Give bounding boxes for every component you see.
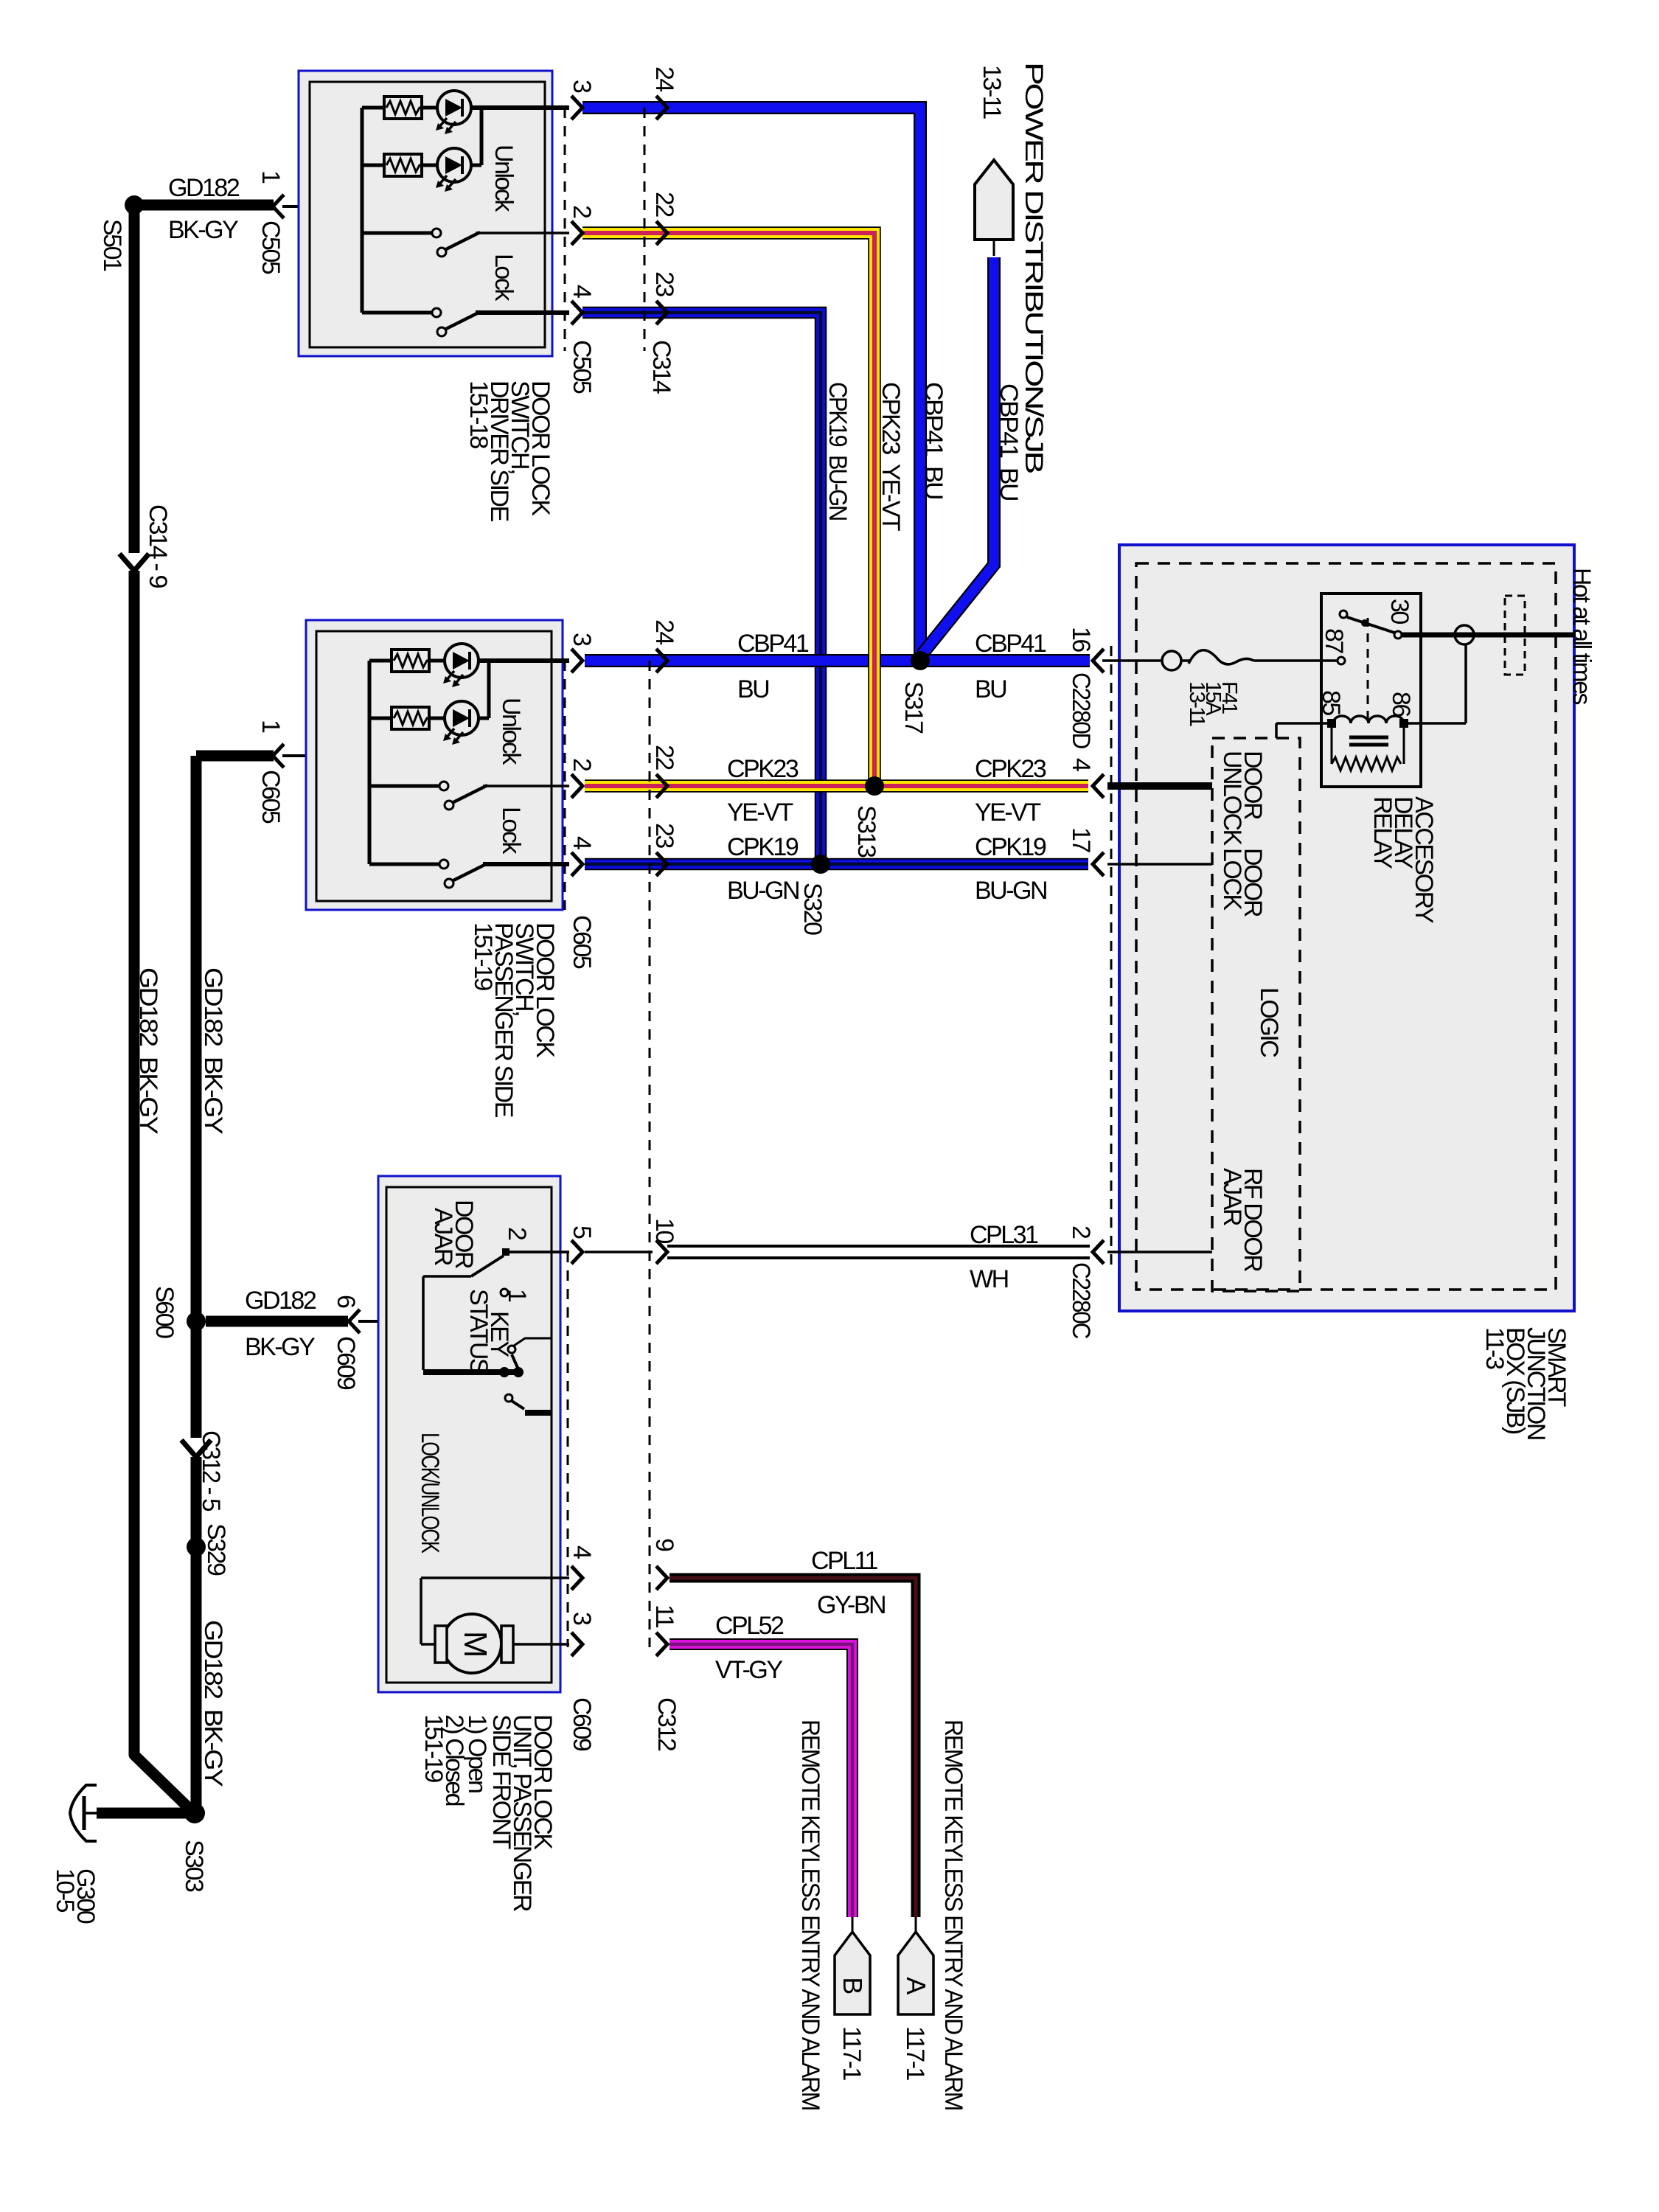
svg-text:POWER DISTRIBUTION/SJB: POWER DISTRIBUTION/SJB — [1020, 62, 1048, 473]
svg-text:30: 30 — [1385, 599, 1413, 624]
svg-text:13-11: 13-11 — [1185, 681, 1208, 726]
svg-text:1: 1 — [257, 170, 285, 184]
svg-text:151-19: 151-19 — [420, 1714, 448, 1782]
svg-text:B: B — [838, 1977, 868, 1994]
svg-text:C314: C314 — [647, 340, 675, 394]
svg-text:BU-GN: BU-GN — [975, 877, 1046, 905]
svg-text:A: A — [901, 1977, 931, 1994]
svg-text:GD182 BK-GY: GD182 BK-GY — [134, 967, 162, 1134]
svg-text:17: 17 — [1067, 827, 1095, 852]
svg-text:UNLOCK: UNLOCK — [1218, 751, 1246, 846]
svg-text:2: 2 — [568, 205, 596, 218]
svg-text:C312 - 5: C312 - 5 — [197, 1430, 225, 1512]
svg-text:C2280C: C2280C — [1067, 1262, 1095, 1339]
svg-text:117-1: 117-1 — [838, 2026, 866, 2081]
svg-text:Lock: Lock — [497, 807, 525, 855]
svg-text:16: 16 — [1067, 627, 1095, 652]
svg-text:3: 3 — [568, 633, 596, 646]
svg-text:LOCK: LOCK — [1218, 848, 1246, 911]
svg-text:4: 4 — [1067, 758, 1095, 771]
svg-text:AJAR: AJAR — [429, 1208, 457, 1265]
svg-text:GY-BN: GY-BN — [817, 1591, 885, 1619]
svg-text:6: 6 — [332, 1295, 360, 1308]
svg-text:LOCK/UNLOCK: LOCK/UNLOCK — [416, 1433, 444, 1554]
svg-text:CPK23 YE-VT: CPK23 YE-VT — [877, 382, 905, 531]
svg-text:3: 3 — [568, 80, 596, 93]
svg-text:CPL52: CPL52 — [715, 1612, 784, 1640]
svg-text:AJAR: AJAR — [1218, 1168, 1246, 1225]
svg-text:3: 3 — [568, 1612, 596, 1625]
svg-text:CBP41 BU: CBP41 BU — [919, 382, 947, 498]
svg-text:10-5: 10-5 — [51, 1868, 79, 1913]
svg-text:BK-GY: BK-GY — [245, 1333, 315, 1361]
svg-text:Lock: Lock — [490, 254, 518, 302]
svg-text:CPK19: CPK19 — [975, 833, 1046, 861]
svg-text:1: 1 — [257, 720, 285, 733]
svg-text:4: 4 — [568, 1545, 596, 1559]
svg-text:S303: S303 — [180, 1840, 208, 1892]
svg-text:4: 4 — [568, 285, 596, 298]
svg-text:CPK23: CPK23 — [975, 755, 1046, 783]
svg-text:CBP41: CBP41 — [737, 630, 809, 658]
svg-text:9: 9 — [650, 1538, 678, 1551]
svg-text:S329: S329 — [202, 1523, 230, 1576]
svg-text:23: 23 — [650, 271, 678, 296]
svg-text:S313: S313 — [852, 805, 880, 858]
svg-text:BU-GN: BU-GN — [727, 877, 799, 905]
svg-text:CPK19: CPK19 — [727, 833, 799, 861]
svg-text:CBP41 BU: CBP41 BU — [995, 383, 1023, 500]
svg-text:VT-GY: VT-GY — [715, 1656, 782, 1684]
svg-text:151-19: 151-19 — [469, 922, 497, 990]
svg-text:CPK19 BU-GN: CPK19 BU-GN — [824, 382, 852, 520]
svg-text:5: 5 — [568, 1225, 596, 1239]
svg-text:GD182 BK-GY: GD182 BK-GY — [199, 967, 227, 1134]
svg-text:CPK23: CPK23 — [727, 755, 799, 783]
svg-text:GD182: GD182 — [245, 1287, 316, 1315]
svg-text:22: 22 — [650, 192, 678, 217]
svg-text:Hot at all times: Hot at all times — [1568, 568, 1596, 704]
svg-text:WH: WH — [970, 1265, 1008, 1293]
svg-text:M: M — [457, 1631, 493, 1656]
svg-text:BU: BU — [975, 675, 1006, 703]
svg-text:GD182: GD182 — [168, 174, 240, 202]
svg-text:2: 2 — [1067, 1225, 1095, 1239]
svg-text:22: 22 — [650, 745, 678, 770]
svg-text:YE-VT: YE-VT — [975, 799, 1040, 827]
svg-text:11-3: 11-3 — [1481, 1327, 1509, 1369]
svg-text:STATUS: STATUS — [465, 1289, 493, 1374]
svg-text:23: 23 — [650, 823, 678, 848]
svg-text:24: 24 — [650, 66, 678, 91]
svg-text:C605: C605 — [257, 770, 285, 824]
svg-text:86: 86 — [1387, 692, 1415, 717]
svg-text:C609: C609 — [332, 1336, 360, 1390]
svg-text:10: 10 — [650, 1218, 678, 1243]
svg-text:S600: S600 — [150, 1286, 178, 1338]
svg-text:S501: S501 — [98, 219, 126, 271]
svg-text:CBP41: CBP41 — [975, 630, 1046, 658]
svg-text:C505: C505 — [568, 340, 596, 394]
svg-text:CPL31: CPL31 — [970, 1221, 1038, 1249]
svg-text:85: 85 — [1317, 690, 1345, 715]
svg-text:Unlock: Unlock — [490, 145, 518, 212]
svg-text:87: 87 — [1320, 628, 1348, 653]
svg-text:24: 24 — [650, 619, 678, 644]
svg-text:C312: C312 — [653, 1697, 681, 1751]
svg-text:YE-VT: YE-VT — [727, 799, 793, 827]
svg-text:C609: C609 — [568, 1697, 596, 1751]
svg-text:S320: S320 — [799, 883, 827, 935]
svg-text:13-11: 13-11 — [978, 65, 1006, 119]
svg-text:GD182 BK-GY: GD182 BK-GY — [199, 1620, 227, 1787]
svg-text:2: 2 — [568, 758, 596, 771]
svg-text:BK-GY: BK-GY — [168, 216, 238, 244]
svg-text:4: 4 — [568, 836, 596, 849]
svg-text:REMOTE KEYLESS ENTRY AND ALARM: REMOTE KEYLESS ENTRY AND ALARM — [796, 1719, 824, 2110]
svg-text:117-1: 117-1 — [901, 2026, 929, 2081]
svg-text:CPL11: CPL11 — [811, 1547, 878, 1575]
svg-text:151-18: 151-18 — [465, 380, 493, 448]
svg-text:C605: C605 — [568, 915, 596, 969]
svg-text:REMOTE KEYLESS ENTRY AND ALARM: REMOTE KEYLESS ENTRY AND ALARM — [939, 1719, 967, 2110]
svg-text:C505: C505 — [257, 220, 285, 274]
svg-text:2: 2 — [503, 1227, 531, 1240]
svg-text:LOGIC: LOGIC — [1255, 987, 1283, 1057]
svg-text:1: 1 — [503, 1289, 531, 1302]
svg-text:BU: BU — [737, 675, 768, 703]
svg-text:S317: S317 — [900, 681, 928, 734]
svg-text:C314 - 9: C314 - 9 — [144, 504, 172, 588]
svg-text:RELAY: RELAY — [1368, 796, 1397, 869]
svg-text:Unlock: Unlock — [497, 698, 525, 765]
svg-text:C2280D: C2280D — [1067, 672, 1095, 748]
svg-text:11: 11 — [650, 1604, 678, 1628]
